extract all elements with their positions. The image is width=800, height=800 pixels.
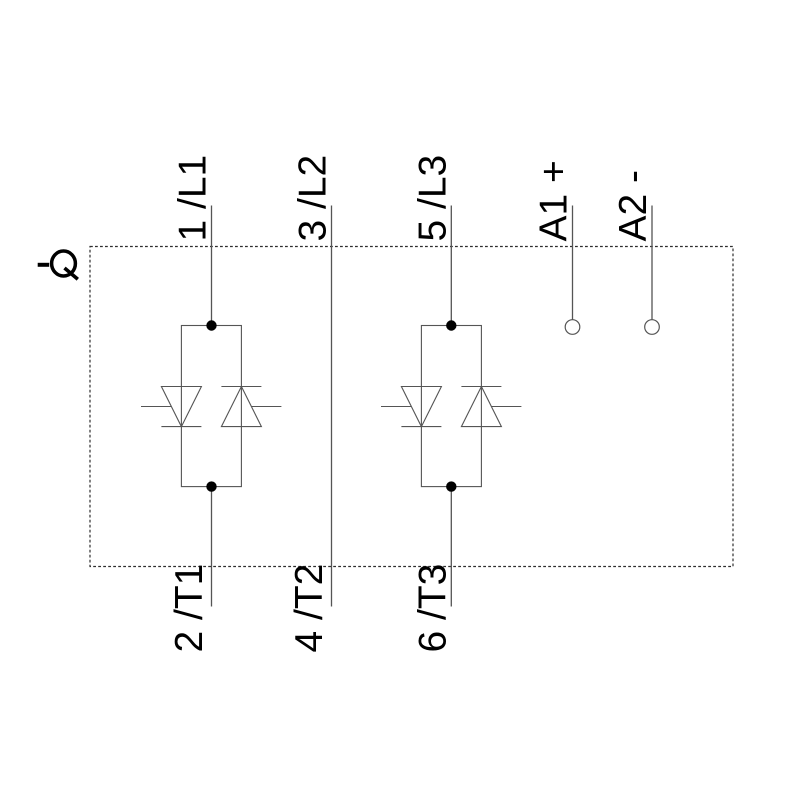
svg-text:1 /L1: 1 /L1 <box>172 155 215 242</box>
svg-text:A2 -: A2 - <box>612 170 655 242</box>
svg-text:2 /T1: 2 /T1 <box>168 564 211 653</box>
svg-text:3 /L2: 3 /L2 <box>292 155 335 242</box>
svg-text:A1 +: A1 + <box>533 160 576 241</box>
svg-text:5 /L3: 5 /L3 <box>411 155 454 242</box>
svg-text:4 /T2: 4 /T2 <box>288 564 331 653</box>
svg-text:6 /T3: 6 /T3 <box>411 564 454 653</box>
